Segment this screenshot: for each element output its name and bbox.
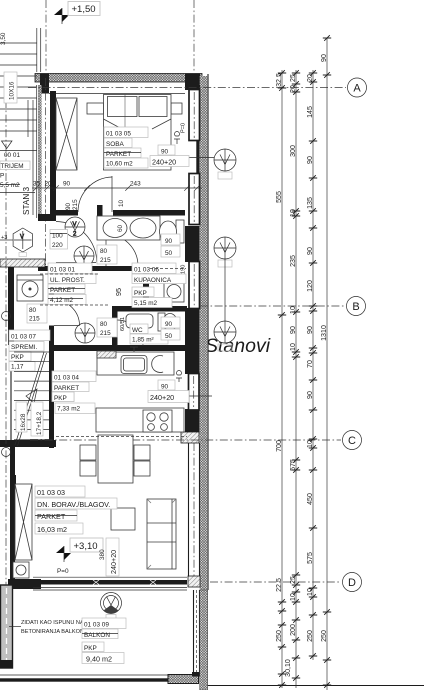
svg-text:32.5: 32.5 — [275, 73, 283, 87]
svg-text:215: 215 — [100, 330, 111, 337]
svg-text:SOBA: SOBA — [106, 141, 124, 148]
label 80/215 storage — [27, 304, 47, 323]
toilet window label 90/50 — [161, 234, 180, 257]
wall left insulation strip — [38, 85, 42, 215]
wall right hatch band — [200, 76, 208, 590]
entrance door label 100/220 — [50, 230, 68, 250]
label TRIJEM — [0, 161, 30, 170]
dining table — [80, 435, 150, 483]
bedroom labels — [104, 127, 148, 168]
grid circle D — [343, 573, 362, 592]
svg-text:UL. PROST.: UL. PROST. — [50, 277, 85, 284]
grid vline left edge — [5, 100, 7, 585]
svg-text:95: 95 — [114, 288, 123, 296]
wall top right corner block — [185, 74, 200, 89]
svg-text:SPREMI.: SPREMI. — [11, 344, 38, 351]
wall stairwell left vertical — [10, 345, 12, 443]
svg-text:C: C — [348, 435, 356, 447]
grid node circle left 1 — [2, 312, 11, 321]
wall right inner face segments — [185, 85, 200, 434]
svg-text:700: 700 — [275, 440, 283, 452]
window right W4 kitchen — [189, 374, 200, 411]
zidati leader line — [9, 626, 21, 628]
svg-text:50: 50 — [165, 250, 173, 257]
svg-text:B: B — [352, 301, 359, 313]
svg-text:3,50: 3,50 — [0, 32, 7, 45]
wall top inner face line — [49, 93, 185, 95]
wall bedroom bottom right part — [113, 210, 148, 216]
svg-text:+3,10: +3,10 — [74, 541, 98, 552]
wall balcony left cap — [0, 660, 13, 668]
kitchen window label — [148, 371, 189, 403]
sofa — [147, 499, 176, 569]
balcony labels — [82, 618, 126, 664]
label 240+20 rotated window — [106, 538, 119, 576]
svg-text:01 03 09: 01 03 09 — [84, 622, 109, 629]
svg-text:DN. BORAV./BLAGOV.: DN. BORAV./BLAGOV. — [37, 500, 110, 509]
grid node circle left 2 — [2, 448, 11, 457]
svg-text:WC: WC — [132, 327, 143, 334]
wall bedroom bottom left part — [56, 210, 78, 216]
svg-text:5,15 m2: 5,15 m2 — [134, 300, 158, 307]
svg-text:Stanovi: Stanovi — [205, 335, 271, 357]
grid circle C — [343, 431, 362, 450]
triangle marker — [2, 141, 13, 149]
living labels — [35, 486, 117, 534]
grid line D — [210, 581, 341, 583]
dimension numbers — [275, 54, 328, 677]
svg-text:90: 90 — [306, 391, 314, 399]
svg-text:240+20: 240+20 — [152, 158, 176, 167]
wall hatch block grid C — [181, 432, 199, 443]
side table living — [13, 562, 29, 578]
svg-text:BALKON: BALKON — [84, 632, 110, 639]
svg-text:01 03 06: 01 03 06 — [134, 267, 159, 274]
outside marker 3 — [214, 321, 236, 351]
svg-text:60: 60 — [117, 224, 124, 232]
wall top outer — [35, 74, 202, 83]
svg-text:450: 450 — [306, 493, 314, 505]
svg-text:+1,50: +1,50 — [72, 4, 96, 15]
wall balcony left hatched — [1, 585, 13, 668]
window right W3 bathroom — [189, 262, 200, 309]
svg-text:25: 25 — [289, 576, 297, 584]
svg-text:90: 90 — [65, 202, 72, 210]
north compass — [101, 593, 122, 621]
svg-text:1310: 1310 — [320, 325, 328, 341]
wall storage left vertical — [8, 267, 14, 345]
svg-text:20: 20 — [45, 181, 53, 188]
dimension chain line 1 — [281, 70, 283, 688]
balcony bottom wall — [0, 675, 193, 682]
svg-text:70: 70 — [306, 360, 314, 368]
svg-text:60/51: 60/51 — [120, 317, 126, 331]
svg-text:BETONIRANJA BALKONA: BETONIRANJA BALKONA — [21, 629, 88, 635]
toilet bathroom — [160, 220, 185, 243]
svg-text:00 01: 00 01 — [4, 152, 20, 159]
wall living left — [10, 447, 15, 579]
svg-text:380: 380 — [99, 549, 106, 560]
label storage room — [9, 330, 50, 371]
wc door arc — [117, 320, 143, 346]
storage door arc — [54, 300, 80, 326]
svg-text:V: V — [20, 235, 24, 241]
wall right outer: outer line — [207, 74, 209, 590]
living left wall strip — [13, 475, 16, 515]
svg-text:7,33 m2: 7,33 m2 — [57, 406, 81, 413]
washing machine bathroom — [164, 281, 184, 302]
svg-text:80: 80 — [100, 321, 108, 328]
coffee table — [111, 508, 135, 530]
svg-text:250: 250 — [275, 630, 283, 642]
svg-text:250: 250 — [306, 630, 314, 642]
entrance door arc — [56, 222, 97, 263]
outside marker 1 — [214, 149, 236, 179]
svg-text:90: 90 — [165, 238, 173, 245]
bedroom dim line — [32, 181, 202, 191]
svg-text:215: 215 — [29, 316, 40, 323]
entrance door leaf — [56, 262, 96, 264]
svg-text:35: 35 — [33, 181, 41, 188]
svg-text:135: 135 — [306, 197, 314, 209]
window leader lines — [172, 157, 216, 159]
svg-text:10: 10 — [306, 588, 314, 596]
wall left axis — [45, 78, 47, 265]
grid line B — [200, 305, 345, 307]
svg-text:PARKET: PARKET — [106, 151, 131, 158]
svg-text:90: 90 — [63, 181, 71, 188]
svg-text:01 03 03: 01 03 03 — [37, 488, 65, 497]
storage door leaf — [54, 325, 80, 327]
bedroom window label 90 240+20 — [150, 131, 189, 166]
bed — [87, 95, 182, 171]
svg-text:01 03 05: 01 03 05 — [106, 131, 131, 138]
grid vline top left — [45, 0, 47, 74]
svg-text:16x28: 16x28 — [20, 413, 27, 431]
svg-text:10: 10 — [289, 306, 297, 314]
svg-text:01 03 04: 01 03 04 — [54, 375, 79, 382]
svg-text:PKP: PKP — [84, 645, 97, 652]
svg-text:P: P — [0, 173, 4, 180]
svg-text:20: 20 — [289, 85, 297, 93]
svg-text:1,17: 1,17 — [11, 364, 24, 371]
dimension ticks chain3 — [309, 70, 317, 659]
staircase treads — [14, 352, 49, 439]
balcony note — [21, 620, 96, 635]
svg-text:10,60 m2: 10,60 m2 — [106, 161, 133, 168]
wall left inner leaf — [50, 91, 56, 214]
dimension chain line 2 — [295, 70, 297, 688]
svg-text:PARKET: PARKET — [37, 512, 66, 521]
grid circle A — [348, 78, 367, 97]
svg-text:243: 243 — [130, 181, 141, 188]
svg-text:200: 200 — [289, 624, 297, 636]
svg-text:90: 90 — [320, 54, 328, 62]
grid circle B — [347, 297, 366, 316]
label 16x28 rotated — [16, 402, 27, 432]
svg-text:240+20: 240+20 — [150, 393, 174, 402]
svg-text:22.5: 22.5 — [275, 578, 283, 592]
dimension chain line 3 — [312, 70, 314, 660]
window band living south — [33, 577, 187, 590]
outside marker 2 — [214, 237, 236, 267]
label 10X16 rotated — [4, 72, 17, 103]
svg-text:575: 575 — [289, 459, 297, 471]
svg-text:P=0: P=0 — [181, 123, 187, 133]
svg-text:5,5 m2: 5,5 m2 — [0, 182, 20, 189]
svg-text:50: 50 — [165, 333, 173, 340]
left wall fragment upper — [28, 100, 33, 215]
svg-text:215: 215 — [72, 199, 79, 210]
bath labels KUPAONICA — [132, 263, 186, 308]
svg-text:1,85 m²: 1,85 m² — [132, 337, 154, 344]
svg-text:215: 215 — [100, 257, 111, 264]
svg-text:PARKET: PARKET — [54, 385, 79, 392]
dimension ticks chain4 — [323, 35, 331, 688]
svg-text:4,12 m2: 4,12 m2 — [50, 297, 74, 304]
svg-text:90: 90 — [306, 247, 314, 255]
bedroom door arc — [78, 177, 112, 212]
corridor dashed lines — [40, 273, 100, 275]
wall stair bottom — [0, 440, 56, 447]
svg-text:V: V — [73, 222, 77, 228]
grid vline top right — [193, 0, 195, 74]
svg-text:A: A — [353, 83, 361, 95]
svg-text:9,40 m2: 9,40 m2 — [86, 655, 112, 664]
wall above kitchen — [54, 345, 187, 351]
wall stair right vertical — [49, 267, 54, 448]
vent symbol 1 — [65, 217, 85, 238]
kitchen lower counter with stove — [96, 408, 184, 432]
svg-text:90: 90 — [161, 384, 169, 391]
wall bathroom top edge — [148, 210, 185, 216]
stair landing top-left — [0, 28, 41, 131]
grid line A — [28, 87, 346, 89]
svg-text:10: 10 — [289, 343, 297, 351]
svg-text:145: 145 — [306, 106, 314, 118]
wc window label 90/50 — [161, 317, 180, 340]
wall living bottom solid left piece — [8, 579, 41, 589]
balcony bottom hatched block — [168, 675, 199, 684]
kitchen top counter — [97, 347, 174, 375]
dimension ticks chain1 — [278, 70, 286, 688]
wall top left corner block — [40, 74, 49, 94]
svg-text:PARKET: PARKET — [50, 287, 75, 294]
svg-text:10: 10 — [289, 593, 297, 601]
svg-text:10: 10 — [118, 199, 125, 207]
wall left storage hatched — [0, 259, 45, 267]
window right W1 bedroom — [189, 90, 200, 141]
svg-text:235: 235 — [289, 255, 297, 267]
elevation +3,10 — [56, 538, 103, 562]
bathroom door arc — [106, 234, 138, 266]
wall corridor/bath vertical — [97, 205, 103, 238]
svg-text:STAN 3: STAN 3 — [22, 186, 31, 215]
svg-text:10: 10 — [306, 440, 314, 448]
kitchen labels — [52, 371, 96, 414]
svg-text:250: 250 — [320, 630, 328, 642]
wc labels — [130, 324, 168, 344]
svg-text:10: 10 — [289, 209, 297, 217]
storage washing machine — [17, 275, 43, 301]
svg-text:PKP: PKP — [11, 354, 24, 361]
svg-text:240+20: 240+20 — [109, 550, 118, 574]
svg-text:300: 300 — [289, 145, 297, 157]
svg-text:01 03 07: 01 03 07 — [11, 334, 36, 341]
svg-text:10X16: 10X16 — [9, 81, 16, 100]
bathroom door leaf — [105, 234, 107, 266]
svg-text:D: D — [348, 577, 356, 589]
svg-text:575: 575 — [306, 552, 314, 564]
svg-text:90: 90 — [306, 326, 314, 334]
bedroom door leaf — [111, 176, 113, 212]
wall balcony right dark — [194, 590, 200, 672]
svg-text:PKP: PKP — [54, 395, 67, 402]
wall hatch block bottom right living — [188, 576, 200, 587]
wall kupaonica/wc divider — [112, 306, 187, 312]
wall living right double line — [189, 443, 200, 577]
marker connector line — [224, 259, 226, 321]
window right W2 bedroom2 — [189, 174, 200, 225]
ground line bottom right — [208, 685, 424, 687]
wall kupaonica left vertical — [143, 266, 149, 308]
label 17+18,2 rotated — [31, 402, 43, 436]
svg-text:220: 220 — [52, 242, 63, 249]
wc toilet — [158, 313, 177, 331]
svg-text:90: 90 — [165, 321, 173, 328]
label +1,50 — [68, 2, 100, 16]
wc sink — [126, 314, 153, 328]
svg-text:+3: +3 — [1, 235, 7, 241]
wall left bottom block — [38, 214, 56, 221]
bath counter with sinks — [97, 216, 160, 240]
tv wardrobe living — [15, 484, 32, 560]
wall living right axis — [193, 443, 195, 580]
dimension chain line 4 — [326, 38, 328, 690]
svg-text:80: 80 — [100, 248, 108, 255]
svg-text:17+18,2: 17+18,2 — [36, 411, 43, 435]
svg-text:KUPAONICA: KUPAONICA — [134, 277, 172, 284]
svg-text:120: 120 — [306, 280, 314, 292]
wc door leaf — [116, 320, 118, 346]
wall wc left vertical — [112, 306, 118, 346]
hall labels UL PROST — [48, 263, 96, 305]
svg-text:30,10: 30,10 — [284, 659, 292, 677]
hexagon symbol — [0, 228, 33, 257]
svg-text:25: 25 — [289, 74, 297, 82]
stair direction line — [15, 352, 47, 446]
dimension ticks chain2 — [292, 70, 300, 681]
svg-text:20: 20 — [306, 74, 314, 82]
svg-text:16,03 m2: 16,03 m2 — [37, 525, 67, 534]
svg-text:90: 90 — [161, 149, 169, 156]
wall hall bottom (UL PROST top) — [38, 266, 146, 271]
wardrobe bedroom — [56, 98, 77, 170]
vent symbol 3 — [75, 323, 95, 343]
storage door gap — [49, 300, 55, 326]
vent symbol 2 — [74, 246, 94, 266]
wall balcony right hatch — [200, 590, 208, 690]
elevation flag top — [54, 8, 69, 22]
svg-text:01 03 01: 01 03 01 — [50, 267, 75, 274]
svg-text:90: 90 — [306, 156, 314, 164]
svg-text:80: 80 — [29, 307, 37, 314]
wc door label 80/215 — [97, 318, 117, 337]
grid line C — [30, 439, 341, 441]
svg-text:90: 90 — [289, 326, 297, 334]
bath door label 80/215 — [97, 245, 117, 264]
wall left outer face line — [36, 85, 38, 218]
svg-text:P=0: P=0 — [57, 568, 69, 575]
svg-text:555: 555 — [275, 191, 283, 203]
svg-text:TRIJEM: TRIJEM — [1, 163, 24, 170]
svg-text:PKP: PKP — [134, 290, 147, 297]
